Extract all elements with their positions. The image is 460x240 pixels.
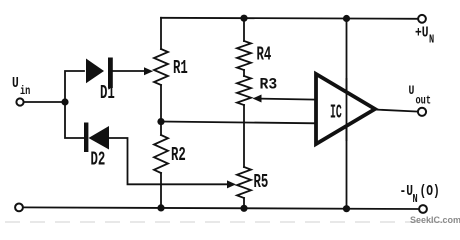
label U_out (409, 84, 432, 108)
terminal +UN (418, 15, 426, 23)
resistor R3 (237, 76, 251, 105)
node junction top rail / R4 column (240, 15, 247, 22)
resistor R5 (237, 167, 251, 198)
op-amp U1 (IC) (316, 74, 375, 144)
terminal U_out (418, 108, 426, 116)
svg-text:R5: R5 (254, 172, 269, 193)
wire D1 to R1 wiper (113, 70, 146, 72)
node junction R1/R2 (157, 118, 164, 125)
svg-text:in: in (20, 85, 30, 99)
wire supply line through IC (346, 19, 348, 209)
svg-text:R2: R2 (171, 145, 186, 166)
arrowhead to R5 wiper (227, 180, 236, 188)
svg-text:U: U (409, 84, 415, 99)
wire input (24, 101, 65, 103)
diode D1 (86, 58, 113, 89)
arrowhead to R1 wiper (144, 67, 153, 75)
svg-text:SeekIC.com: SeekIC.com (410, 215, 460, 225)
wire R2 bottom to bottom rail (160, 173, 162, 208)
terminal U_in (16, 98, 23, 105)
wire input branch up to D1 (65, 71, 84, 102)
resistor R2 (154, 135, 168, 173)
svg-text:D1: D1 (100, 83, 115, 104)
svg-text:(O): (O) (420, 183, 440, 200)
wire top rail (161, 18, 418, 19)
terminal -UN(0) bottom left (15, 204, 23, 212)
wire D2 to R5 wiper (109, 138, 229, 184)
wire input branch down to D2 (65, 102, 84, 138)
svg-text:IC: IC (330, 101, 342, 124)
node junction bottom rail / R5 (240, 205, 247, 212)
svg-text:D2: D2 (91, 149, 106, 170)
svg-text:R4: R4 (257, 44, 272, 65)
svg-text:N: N (429, 35, 434, 47)
wire R3 wiper to op-amp input + (260, 99, 316, 100)
resistor R1 (154, 49, 168, 85)
arrowhead to R3 wiper (253, 95, 262, 103)
wire bottom rail (23, 207, 419, 209)
label -UN(0) (400, 183, 440, 207)
terminal -UN(0) bottom right (419, 205, 427, 213)
resistor R4 (237, 41, 251, 70)
node junction U_in branch (61, 98, 68, 105)
diode D2 (84, 123, 109, 153)
wire R1 bottom to junction (160, 85, 162, 135)
label +UN (415, 24, 434, 47)
svg-text:U: U (12, 75, 19, 92)
wire R3 bottom to R5 top (243, 105, 245, 167)
wire R1-R2 junction to op-amp input - (161, 122, 316, 124)
wire R4 to R3 (243, 70, 245, 76)
wire left column upper (to R1) (160, 18, 162, 49)
svg-text:out: out (416, 95, 432, 107)
svg-text:R3: R3 (260, 75, 278, 93)
svg-text:N: N (413, 194, 418, 206)
wire op-amp output (375, 110, 418, 112)
scan artifact dashes (5, 221, 455, 223)
svg-text:R1: R1 (173, 58, 188, 79)
node junction bottom rail / R2 (157, 204, 164, 211)
wire R5 bottom to bottom rail (243, 198, 245, 208)
svg-text:+U: +U (415, 24, 429, 41)
svg-text:-U: -U (400, 183, 414, 200)
node junction bottom rail / supply line (343, 205, 350, 212)
node junction top rail / supply line (343, 15, 350, 22)
wire supply line inside op-amp (346, 78, 348, 141)
label U_in (12, 75, 30, 99)
wire middle column upper (rail to R4) (243, 18, 245, 41)
